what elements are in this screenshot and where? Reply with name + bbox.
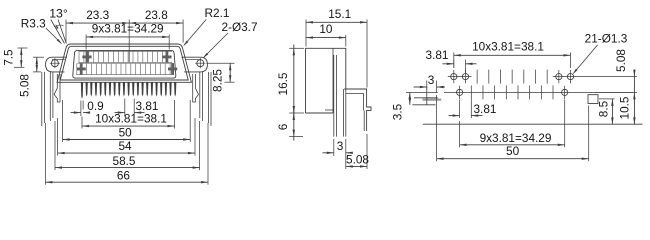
dim 3 pin rows side [333, 139, 335, 156]
dim 0.9 pin width [80, 101, 82, 117]
dim 10x3.81=38.1 [81, 117, 83, 129]
dim 50 footprint [436, 95, 438, 161]
side shroud inner wall [332, 48, 334, 113]
right bracket legs [210, 72, 212, 126]
dim 5.08 left flange height [33, 56, 44, 58]
left flange hole [51, 60, 58, 67]
insulator face trapezoid [73, 50, 176, 78]
dim 8.25 right [207, 62, 235, 64]
left board-lock hook [54, 74, 60, 102]
square pad right [588, 95, 598, 104]
dim 6 side below board [289, 136, 303, 138]
svg-text:9x3.81=34.29: 9x3.81=34.29 [92, 22, 164, 36]
dim 16.5 side height [289, 47, 304, 49]
svg-text:23.3: 23.3 [86, 8, 109, 22]
contact grid row 2 [77, 63, 173, 65]
dim 9x3.81=34.29 contacts span [85, 35, 87, 50]
dim 5.08 row spacing [577, 76, 638, 78]
radius label R3.3 with leader [46, 28, 62, 43]
hole label 2-diam 3.7 with leader [204, 33, 229, 58]
dim 58.5 [54, 121, 56, 170]
dim 10.5 right [633, 92, 635, 124]
rear pin column [342, 89, 344, 137]
svg-text:8.5: 8.5 [597, 100, 611, 117]
svg-text:8.25: 8.25 [211, 69, 225, 92]
dim 5.08 side [366, 134, 368, 169]
dim 3 slot width [426, 81, 428, 90]
right flange hole [197, 60, 204, 67]
right board-lock hook [193, 74, 199, 102]
svg-text:58.5: 58.5 [113, 154, 136, 168]
dim 66 [44, 123, 46, 185]
radius label R2.1 with leader [184, 20, 206, 46]
svg-text:50: 50 [506, 144, 520, 158]
dim 8.5 right [599, 98, 615, 100]
dim 54 [57, 118, 59, 156]
svg-text:13°: 13° [49, 7, 68, 21]
dim 7.5 left [18, 47, 28, 49]
svg-text:15.1: 15.1 [328, 7, 351, 21]
shell outer outline [57, 44, 191, 82]
svg-text:10: 10 [319, 22, 333, 36]
svg-text:9x3.81=34.29: 9x3.81=34.29 [480, 131, 552, 145]
right mounting flange [182, 57, 208, 72]
svg-text:2-Ø3.7: 2-Ø3.7 [221, 20, 257, 34]
dim 50 [62, 100, 64, 142]
svg-text:6: 6 [276, 123, 290, 130]
svg-text:21-Ø1.3: 21-Ø1.3 [585, 31, 628, 45]
svg-text:3.81: 3.81 [426, 48, 449, 62]
svg-text:10.5: 10.5 [618, 96, 632, 119]
svg-text:5.08: 5.08 [346, 152, 369, 166]
svg-text:5.08: 5.08 [614, 49, 628, 72]
svg-text:10x3.81=38.1: 10x3.81=38.1 [95, 111, 167, 125]
dim 9x3.81=34.29 bottom row span [459, 121, 461, 147]
dim 3.81 pin pitch [124, 99, 126, 117]
svg-text:3.5: 3.5 [391, 103, 405, 120]
svg-text:54: 54 [118, 139, 132, 153]
dim 3.81 bottom offset [459, 100, 461, 119]
dim 10 side [345, 35, 347, 47]
mounting bracket edge-on [344, 89, 371, 131]
svg-text:5.08: 5.08 [18, 74, 32, 97]
dim 10x3.81=38.1 top row span [453, 53, 455, 69]
dim 23.3 / 23.8 top width [65, 20, 67, 43]
svg-text:R3.3: R3.3 [21, 16, 46, 30]
svg-text:66: 66 [117, 168, 131, 182]
svg-text:10x3.81=38.1: 10x3.81=38.1 [472, 39, 544, 53]
side body outline [306, 48, 346, 113]
svg-text:R2.1: R2.1 [205, 6, 230, 20]
dim 3.81 top pitch [453, 60, 455, 69]
shell inner outline [60, 46, 188, 80]
front pin column [333, 55, 335, 137]
svg-text:16.5: 16.5 [276, 72, 290, 95]
side small step [325, 109, 334, 111]
footprint left edge outline [423, 123, 643, 125]
dim 3.5 slot height [406, 92, 414, 94]
dim 15.1 side [305, 20, 307, 47]
svg-text:7.5: 7.5 [2, 49, 16, 66]
angle label 13 deg with leader [51, 20, 65, 44]
solder pins row [81, 82, 83, 99]
svg-text:3: 3 [337, 139, 344, 153]
svg-text:23.8: 23.8 [145, 8, 168, 22]
left bracket legs [41, 72, 43, 126]
contact retention crosses [82, 51, 91, 63]
svg-text:3: 3 [428, 73, 435, 87]
contact grid row 1 [79, 50, 172, 52]
top hole row [451, 74, 457, 80]
svg-text:3.81: 3.81 [474, 102, 497, 116]
board lock slot left [414, 92, 438, 94]
hole label 21-diam 1.3 with leader [574, 45, 598, 73]
svg-text:50: 50 [119, 126, 133, 140]
left mounting flange [46, 57, 67, 72]
bottom hole row [444, 91, 633, 93]
